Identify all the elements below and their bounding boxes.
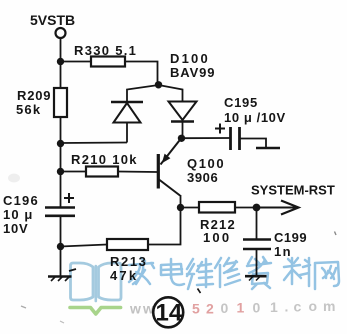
transistor Q100 3906 [158,139,225,211]
wire node B branch to diodes [127,85,183,102]
wire node G to R212 [181,207,200,209]
svg-text:3906: 3906 [187,170,218,185]
wire C199 to ground [256,249,258,275]
wire R212 to node H [235,207,256,209]
svg-text:5: 5 [192,301,200,317]
svg-text:w: w [129,301,141,317]
resistor R210 10k [71,152,138,177]
node A junction [57,58,64,65]
wire node C to node D [60,144,62,171]
wire node A to R330 [61,61,92,63]
svg-text:0: 0 [253,300,261,316]
svg-text:10 μ /10V: 10 μ /10V [224,110,286,125]
char zi [247,257,271,289]
diode D100a (left, cathode up) [111,102,143,143]
ground (under C199) [245,275,267,278]
svg-text:100: 100 [203,230,231,245]
wire node D to C196 [60,172,62,208]
svg-text:1: 1 [237,300,245,316]
svg-text:m: m [323,298,335,314]
capacitor C199 1n [243,230,307,259]
wire node D to R210 [61,171,87,173]
node C junction [57,140,64,147]
wire R209 to node C [60,117,62,142]
node H junction (SYSTEM-RST node) [253,204,261,212]
char wei [187,259,213,289]
wire node A to R209 [60,62,62,89]
scan speck right of C199 [335,232,337,236]
ground (right of C195) [256,147,280,150]
svg-text:D100: D100 [170,51,210,66]
char jia [129,258,154,284]
wire R330 to corner [125,62,158,85]
capacitor C195 10u/10V [215,95,286,150]
resistor R330 5.1 [74,43,137,67]
wire C196 to node E [60,216,62,245]
wire R210 to base of Q100 [118,171,157,174]
node E junction [57,243,64,250]
char wang [315,262,339,289]
svg-text:C196: C196 [3,193,39,208]
resistor R213 47k [107,239,148,283]
svg-text:0: 0 [221,300,229,316]
svg-text:R330 5.1: R330 5.1 [74,43,137,58]
svg-text:BAV99: BAV99 [170,65,215,80]
char dian [161,259,184,285]
watermark chinese text 家电维修资料网 [129,257,339,289]
wire node F to C195 [182,137,231,139]
watermark book logo [70,263,121,314]
wire node E to ground [60,247,62,276]
svg-text:10V: 10V [3,221,29,236]
ground (left, under C196) [48,269,76,281]
svg-text:10 μ: 10 μ [3,207,33,222]
node G junction (collector node) [177,204,184,211]
svg-text:C195: C195 [224,95,258,110]
svg-text:5VSTB: 5VSTB [30,12,75,28]
svg-text:R210 10k: R210 10k [71,152,138,167]
wire C195 to ground [240,139,267,148]
wire node C to left diode anode [61,142,128,145]
svg-text:c: c [294,299,302,315]
wire node H to C199 [256,208,258,240]
capacitor C196 10u/10V [3,193,75,236]
node B junction (diode top) [155,81,162,88]
svg-text:1: 1 [270,299,278,315]
diode D100 label [170,51,215,80]
char xiu [215,258,240,287]
svg-text:o: o [309,298,318,314]
5VSTB terminal [30,12,75,38]
wire R213 to collector line [148,209,181,245]
svg-text:1n: 1n [274,244,292,259]
svg-text:.: . [285,299,289,315]
resistor R209 56k [16,88,67,117]
scan speck near 5 [198,289,201,294]
scan smudge left edge [8,174,20,183]
wire node E to R213 [61,245,108,247]
svg-text:Q100: Q100 [187,156,225,171]
resistor R212 100 [199,202,236,245]
svg-text:14: 14 [156,300,183,327]
SYSTEM-RST output arrow [251,183,335,215]
node D junction [57,168,64,175]
wire terminal to node A [60,38,62,60]
char liao [284,258,310,286]
page number 14 circled [153,297,183,327]
svg-text:C199: C199 [274,230,307,245]
node F junction (emitter node) [178,135,185,142]
watermark url www.520101.com [129,298,335,317]
diode D100b (right, cathode down) [169,102,197,139]
svg-text:56k: 56k [16,102,41,117]
svg-text:R209: R209 [17,88,51,103]
svg-text:2: 2 [206,301,214,317]
svg-text:SYSTEM-RST: SYSTEM-RST [251,183,335,198]
